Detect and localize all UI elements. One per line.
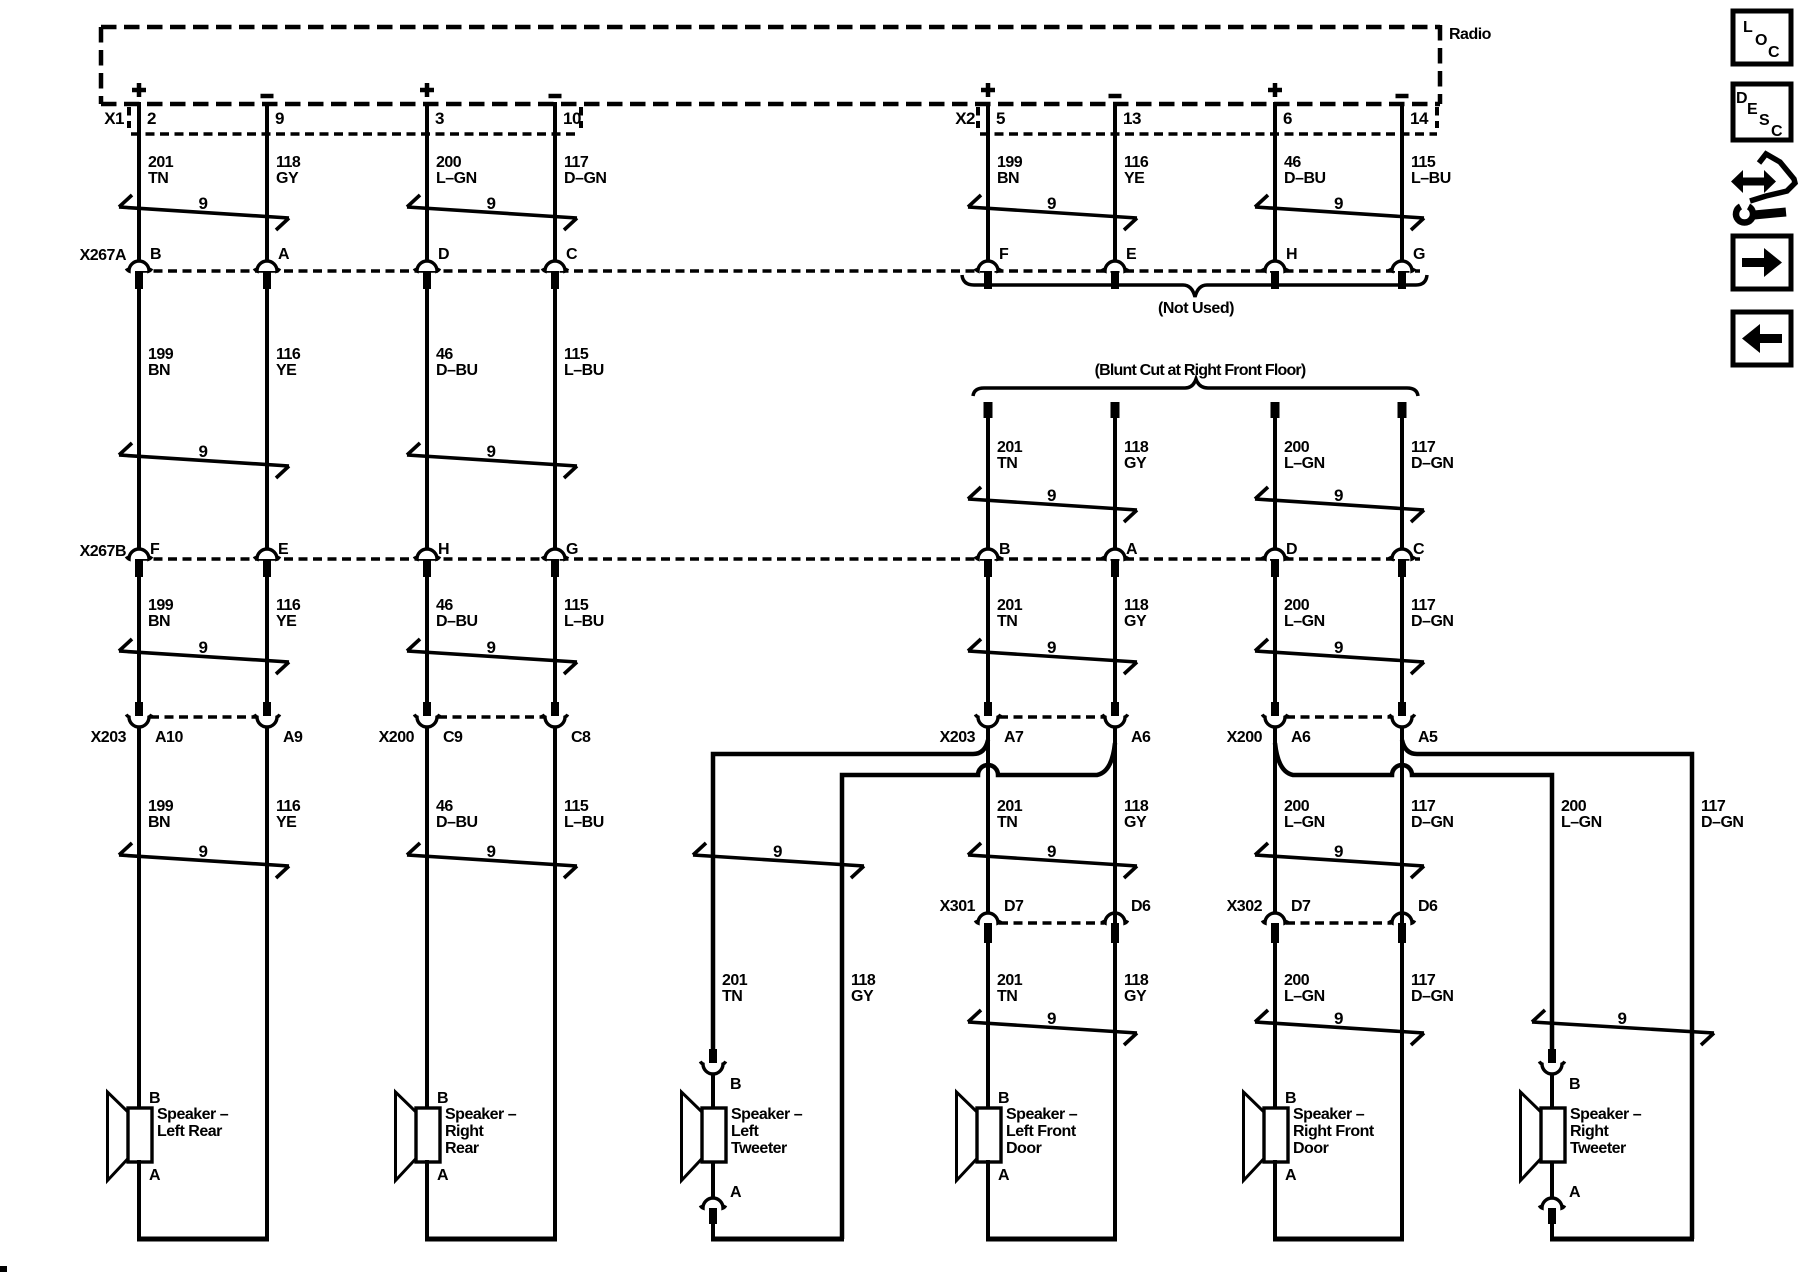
svg-text:GY: GY xyxy=(1124,814,1147,831)
X267A pin D xyxy=(414,246,449,289)
svg-text:118: 118 xyxy=(1124,597,1149,614)
wire label 199 BN xyxy=(997,154,1023,187)
X200 pin A5 xyxy=(1389,702,1438,746)
blunt cut wire end x=1402 xyxy=(1398,402,1407,549)
wire label 118 GY xyxy=(1124,597,1149,630)
wire x=427 X267B to inline connector xyxy=(425,577,429,703)
svg-text:D6: D6 xyxy=(1131,898,1151,915)
connector X1 strip xyxy=(104,107,581,134)
wire label 118 GY xyxy=(851,972,876,1005)
svg-text:118: 118 xyxy=(1124,798,1149,815)
svg-text:115: 115 xyxy=(1411,154,1436,171)
wire x=139 to speaker xyxy=(137,726,141,1110)
svg-text:X1: X1 xyxy=(104,109,124,128)
wire x=988 door connector to speaker xyxy=(986,943,990,1110)
wire label 115 L&#8211;BU xyxy=(564,597,604,630)
svg-text:46: 46 xyxy=(436,597,453,614)
svg-text:200: 200 xyxy=(1284,439,1310,456)
svg-text:117: 117 xyxy=(1411,439,1436,456)
svg-text:115: 115 xyxy=(564,597,589,614)
wire x=267 to speaker xyxy=(265,726,269,1110)
svg-text:Right: Right xyxy=(1570,1123,1610,1140)
connector X302 dashed pair xyxy=(1286,921,1391,924)
svg-text:A: A xyxy=(278,246,290,263)
svg-text:201: 201 xyxy=(997,972,1023,989)
repair icon (arrows and wrench) xyxy=(1731,154,1795,223)
svg-text:(Not Used): (Not Used) xyxy=(1158,300,1234,317)
tweeter lower inline connector x=713 xyxy=(700,1160,725,1239)
svg-text:9: 9 xyxy=(487,194,496,213)
svg-text:TN: TN xyxy=(148,170,168,187)
svg-text:D–GN: D–GN xyxy=(1701,814,1743,831)
X267B pin B xyxy=(975,541,1010,577)
svg-text:Radio: Radio xyxy=(1449,26,1492,43)
plus sign at x=139 xyxy=(132,83,146,97)
connector X267B dashed line xyxy=(139,557,1420,560)
svg-text:X203: X203 xyxy=(91,729,127,746)
svg-text:14: 14 xyxy=(1410,109,1429,128)
wire x=1275 X267B to inline connector xyxy=(1273,577,1277,703)
X267B pin A xyxy=(1102,541,1138,577)
svg-text:B: B xyxy=(149,1090,160,1107)
twisted-pair symbol (1275,1402) y=1022 xyxy=(1255,1009,1424,1045)
svg-text:117: 117 xyxy=(1411,597,1436,614)
svg-text:A: A xyxy=(1126,541,1138,558)
svg-text:D7: D7 xyxy=(1291,898,1311,915)
tweeter upper inline connector x=713 xyxy=(700,1049,725,1110)
svg-text:X200: X200 xyxy=(379,729,415,746)
svg-text:199: 199 xyxy=(148,798,174,815)
back arrow icon box xyxy=(1733,312,1791,365)
DESC icon box xyxy=(1733,84,1791,140)
wire label 46 D&#8211;BU xyxy=(436,346,478,379)
svg-text:Speaker –: Speaker – xyxy=(445,1106,517,1123)
twisted-pair symbol (988,1115) y=1022 xyxy=(968,1009,1137,1045)
svg-text:9: 9 xyxy=(1618,1009,1627,1028)
X267A pin A xyxy=(254,246,290,289)
minus sign at x=1402 xyxy=(1396,94,1409,99)
svg-text:200: 200 xyxy=(1284,798,1310,815)
twisted-pair symbol (988,1115) y=499 xyxy=(968,486,1137,522)
svg-text:A10: A10 xyxy=(155,729,183,746)
X267A pin C xyxy=(542,246,578,289)
wire x=1115 door connector to speaker xyxy=(1113,943,1117,1110)
wire from radio x=1275 xyxy=(1273,102,1277,261)
svg-text:TN: TN xyxy=(997,455,1017,472)
svg-text:C8: C8 xyxy=(571,729,591,746)
svg-text:9: 9 xyxy=(1047,842,1056,861)
svg-text:115: 115 xyxy=(564,346,589,363)
wire x=1275 door connector to speaker xyxy=(1273,943,1277,1110)
svg-text:9: 9 xyxy=(1334,638,1343,657)
svg-text:117: 117 xyxy=(564,154,589,171)
svg-text:D6: D6 xyxy=(1418,898,1438,915)
radio box (dashed) xyxy=(101,25,1440,104)
svg-text:BN: BN xyxy=(148,362,170,379)
svg-text:L–BU: L–BU xyxy=(564,814,604,831)
svg-text:B: B xyxy=(1569,1076,1580,1093)
svg-text:Speaker –: Speaker – xyxy=(1006,1106,1078,1123)
wire label 200 L&#8211;GN xyxy=(1284,597,1325,630)
connector X2 strip xyxy=(955,107,1437,134)
X267A pin E xyxy=(1102,246,1137,289)
wire label 117 D&#8211;GN xyxy=(1411,597,1453,630)
X203 pin A7 xyxy=(975,702,1024,746)
wire x=139 X267A to X267B xyxy=(137,289,141,549)
wire label 199 BN xyxy=(148,798,174,831)
svg-text:116: 116 xyxy=(276,346,301,363)
svg-text:X267A: X267A xyxy=(80,247,127,264)
wire label 117 D&#8211;GN xyxy=(564,154,606,187)
X267A pin H xyxy=(1262,246,1297,289)
svg-text:D–BU: D–BU xyxy=(1284,170,1326,187)
svg-text:L–BU: L–BU xyxy=(564,613,604,630)
svg-text:9: 9 xyxy=(275,109,284,128)
svg-text:D–BU: D–BU xyxy=(436,814,478,831)
svg-text:D–BU: D–BU xyxy=(436,362,478,379)
wire label 117 D&#8211;GN xyxy=(1411,972,1453,1005)
wire label 201 TN xyxy=(997,798,1023,831)
twisted-pair symbol (988,1115) y=207 xyxy=(968,194,1137,230)
blunt cut brace xyxy=(973,379,1418,396)
svg-text:117: 117 xyxy=(1701,798,1726,815)
svg-text:201: 201 xyxy=(722,972,748,989)
speaker return loop 1275-1402 xyxy=(1273,726,1404,1239)
twisted-pair symbol (427,555) y=455 xyxy=(407,442,577,478)
wire from radio x=267 xyxy=(265,102,269,261)
svg-text:A6: A6 xyxy=(1291,729,1311,746)
X302 pin D6 xyxy=(1389,898,1438,943)
svg-text:TN: TN xyxy=(722,988,742,1005)
svg-text:BN: BN xyxy=(997,170,1019,187)
svg-text:9: 9 xyxy=(487,842,496,861)
svg-text:9: 9 xyxy=(487,638,496,657)
svg-text:Tweeter: Tweeter xyxy=(731,1140,787,1157)
twisted-pair symbol (427,555) y=207 xyxy=(407,194,577,230)
svg-text:L–GN: L–GN xyxy=(1561,814,1602,831)
svg-text:201: 201 xyxy=(997,798,1023,815)
svg-text:L–GN: L–GN xyxy=(1284,455,1325,472)
svg-text:116: 116 xyxy=(1124,154,1149,171)
X267A pin G xyxy=(1389,246,1425,289)
wire label 201 TN xyxy=(997,597,1023,630)
svg-text:YE: YE xyxy=(1124,170,1145,187)
twisted-pair symbol (713,842) y=855 xyxy=(693,842,864,878)
svg-text:Right Front: Right Front xyxy=(1293,1123,1375,1140)
svg-text:X203: X203 xyxy=(940,729,976,746)
svg-text:A9: A9 xyxy=(283,729,303,746)
wire label 117 D&#8211;GN xyxy=(1701,798,1743,831)
svg-text:9: 9 xyxy=(199,842,208,861)
svg-text:D–GN: D–GN xyxy=(1411,814,1453,831)
svg-text:D: D xyxy=(1736,90,1747,107)
wire label 46 D&#8211;BU xyxy=(436,798,478,831)
wire x=988 to door connector xyxy=(986,726,990,913)
svg-text:118: 118 xyxy=(276,154,301,171)
connector X200 dashed pair xyxy=(438,715,544,718)
wire label 118 GY xyxy=(1124,798,1149,831)
svg-text:115: 115 xyxy=(564,798,589,815)
svg-text:13: 13 xyxy=(1123,109,1141,128)
svg-text:9: 9 xyxy=(1334,1009,1343,1028)
wire x=139 X267B to inline connector xyxy=(137,577,141,703)
branch wire A6 to right tweeter (with hop over wire) xyxy=(1275,743,1552,1050)
svg-text:E: E xyxy=(1126,246,1137,263)
X200 pin A6 xyxy=(1262,702,1311,746)
svg-text:9: 9 xyxy=(1047,486,1056,505)
wire from radio x=1115 xyxy=(1113,102,1117,261)
X302 pin D7 xyxy=(1262,898,1311,943)
speaker Right Rear xyxy=(396,1090,517,1184)
wire x=1402 to door connector xyxy=(1400,726,1404,913)
X203 pin A9 xyxy=(254,702,303,746)
wire label 116 YE xyxy=(276,346,301,379)
wire x=555 to speaker xyxy=(553,726,557,1110)
svg-text:3: 3 xyxy=(435,109,444,128)
tweeter upper inline connector x=1552 xyxy=(1539,1049,1564,1110)
plus sign at x=1275 xyxy=(1268,83,1282,97)
wire label 118 GY xyxy=(276,154,301,187)
X267B pin E xyxy=(254,541,289,577)
X267A pin B xyxy=(126,246,161,289)
X267B pin H xyxy=(414,541,449,577)
speaker return loop 1552-1692 xyxy=(1550,1237,1694,1242)
svg-text:L–GN: L–GN xyxy=(436,170,477,187)
svg-text:200: 200 xyxy=(1561,798,1587,815)
twisted-pair symbol (139,267) y=651 xyxy=(119,638,289,674)
speaker return loop 713-842 xyxy=(711,1237,844,1242)
wire from radio x=555 xyxy=(553,102,557,261)
svg-text:46: 46 xyxy=(436,346,453,363)
wire x=1402 X267B to inline connector xyxy=(1400,577,1404,703)
speaker return loop 427-555 xyxy=(425,726,557,1239)
svg-text:201: 201 xyxy=(148,154,174,171)
svg-text:Door: Door xyxy=(1293,1140,1329,1157)
wire x=427 to speaker xyxy=(425,726,429,1110)
X301 pin D6 xyxy=(1102,898,1151,943)
svg-text:116: 116 xyxy=(276,798,301,815)
(Not Used) brace xyxy=(962,275,1427,297)
svg-text:C: C xyxy=(1771,123,1783,140)
wire label 116 YE xyxy=(276,597,301,630)
X200 pin C8 xyxy=(542,702,591,746)
svg-text:Tweeter: Tweeter xyxy=(1570,1140,1626,1157)
twisted-pair symbol (139,267) y=455 xyxy=(119,442,289,478)
svg-text:D: D xyxy=(1286,541,1297,558)
twisted-pair symbol (1275,1402) y=207 xyxy=(1255,194,1424,230)
svg-text:116: 116 xyxy=(276,597,301,614)
svg-text:A: A xyxy=(730,1184,742,1201)
svg-text:D–GN: D–GN xyxy=(1411,988,1453,1005)
minus sign at x=1115 xyxy=(1109,94,1122,99)
twisted-pair symbol (988,1115) y=651 xyxy=(968,638,1137,674)
svg-text:O: O xyxy=(1755,32,1767,49)
wire label 200 L&#8211;GN xyxy=(1284,972,1325,1005)
X200 pin C9 xyxy=(414,702,463,746)
connector X203 dashed pair xyxy=(999,715,1104,718)
svg-text:9: 9 xyxy=(1334,194,1343,213)
wire label 199 BN xyxy=(148,597,174,630)
svg-text:C: C xyxy=(566,246,578,263)
svg-text:6: 6 xyxy=(1283,109,1292,128)
branch wire A6 to left tweeter (with hop over wire) xyxy=(842,743,1115,1239)
svg-text:9: 9 xyxy=(1047,638,1056,657)
svg-text:Door: Door xyxy=(1006,1140,1042,1157)
svg-text:2: 2 xyxy=(147,109,156,128)
svg-text:L–GN: L–GN xyxy=(1284,988,1325,1005)
svg-text:A5: A5 xyxy=(1418,729,1438,746)
svg-text:5: 5 xyxy=(996,109,1005,128)
wire label 201 TN xyxy=(997,439,1023,472)
svg-text:L–BU: L–BU xyxy=(1411,170,1451,187)
plus sign at x=427 xyxy=(420,83,434,97)
svg-text:Speaker –: Speaker – xyxy=(1293,1106,1365,1123)
twisted-pair symbol (427,555) y=651 xyxy=(407,638,577,674)
svg-text:L–GN: L–GN xyxy=(1284,613,1325,630)
X267B pin F xyxy=(126,541,160,577)
svg-text:9: 9 xyxy=(199,638,208,657)
page corner mark xyxy=(0,1266,7,1272)
wire x=1402 door connector to speaker xyxy=(1400,943,1404,1110)
svg-text:GY: GY xyxy=(1124,455,1147,472)
blunt cut wire end x=1115 xyxy=(1111,402,1120,549)
wire x=1115 to door connector xyxy=(1113,726,1117,913)
svg-text:118: 118 xyxy=(851,972,876,989)
wire x=555 X267A to X267B xyxy=(553,289,557,549)
svg-text:H: H xyxy=(1286,246,1297,263)
svg-text:GY: GY xyxy=(1124,613,1147,630)
wire x=427 X267A to X267B xyxy=(425,289,429,549)
connector X301 dashed pair xyxy=(999,921,1104,924)
branch wire A5 to right tweeter xyxy=(1402,740,1692,1239)
svg-text:118: 118 xyxy=(1124,439,1149,456)
wire x=1275 to door connector xyxy=(1273,726,1277,913)
svg-text:C: C xyxy=(1413,541,1425,558)
svg-text:L: L xyxy=(1743,19,1753,36)
X267A pin F xyxy=(975,246,1009,289)
svg-text:A: A xyxy=(149,1167,161,1184)
svg-text:F: F xyxy=(999,246,1009,263)
svg-text:TN: TN xyxy=(997,988,1017,1005)
wire x=988 X267B to inline connector xyxy=(986,577,990,703)
twisted-pair symbol (988,1115) y=855 xyxy=(968,842,1137,878)
twisted-pair symbol (1275,1402) y=651 xyxy=(1255,638,1424,674)
svg-text:D7: D7 xyxy=(1004,898,1024,915)
svg-text:117: 117 xyxy=(1411,798,1436,815)
wire label 115 L&#8211;BU xyxy=(564,798,604,831)
svg-text:Speaker –: Speaker – xyxy=(731,1106,803,1123)
speaker Left Tweeter xyxy=(682,1076,803,1201)
svg-text:E: E xyxy=(1747,101,1758,118)
tweeter lower inline connector x=1552 xyxy=(1539,1160,1564,1239)
svg-text:C9: C9 xyxy=(443,729,463,746)
svg-text:D–BU: D–BU xyxy=(436,613,478,630)
speaker Right Front Door xyxy=(1244,1090,1375,1184)
wire from radio x=139 xyxy=(137,102,141,261)
svg-text:118: 118 xyxy=(1124,972,1149,989)
svg-text:G: G xyxy=(566,541,578,558)
svg-text:Left Front: Left Front xyxy=(1006,1123,1077,1140)
svg-text:200: 200 xyxy=(1284,597,1310,614)
X267B pin D xyxy=(1262,541,1297,577)
svg-text:L–GN: L–GN xyxy=(1284,814,1325,831)
svg-text:A: A xyxy=(437,1167,449,1184)
svg-text:B: B xyxy=(999,541,1010,558)
svg-text:TN: TN xyxy=(997,613,1017,630)
wire label 200 L&#8211;GN xyxy=(1284,439,1325,472)
svg-text:GY: GY xyxy=(276,170,299,187)
svg-text:B: B xyxy=(730,1076,741,1093)
svg-text:GY: GY xyxy=(851,988,874,1005)
X267B pin G xyxy=(542,541,578,577)
wire from radio x=988 xyxy=(986,102,990,261)
svg-text:X301: X301 xyxy=(940,898,976,915)
svg-text:B: B xyxy=(437,1090,448,1107)
wire label 46 D&#8211;BU xyxy=(1284,154,1326,187)
minus sign at x=267 xyxy=(261,94,274,99)
svg-text:9: 9 xyxy=(1334,486,1343,505)
wire label 200 L&#8211;GN xyxy=(1284,798,1325,831)
X1/X2 pin numbers xyxy=(147,109,1429,128)
X203 pin A10 xyxy=(126,702,183,746)
svg-text:A: A xyxy=(998,1167,1010,1184)
svg-text:X2: X2 xyxy=(955,109,975,128)
svg-text:199: 199 xyxy=(997,154,1023,171)
svg-text:BN: BN xyxy=(148,613,170,630)
svg-text:D–GN: D–GN xyxy=(564,170,606,187)
wire label 201 TN xyxy=(722,972,748,1005)
speaker return loop 139-267 xyxy=(137,726,269,1239)
blunt cut wire end x=988 xyxy=(984,402,993,549)
svg-text:Rear: Rear xyxy=(445,1140,479,1157)
svg-text:A: A xyxy=(1569,1184,1581,1201)
blunt cut wire end x=1275 xyxy=(1271,402,1280,549)
svg-text:GY: GY xyxy=(1124,988,1147,1005)
svg-text:L–BU: L–BU xyxy=(564,362,604,379)
connector X200 dashed pair xyxy=(1286,715,1391,718)
twisted-pair symbol (427,555) y=855 xyxy=(407,842,577,878)
svg-text:X302: X302 xyxy=(1227,898,1263,915)
svg-text:F: F xyxy=(150,541,160,558)
wire label 115 L&#8211;BU xyxy=(1411,154,1451,187)
svg-text:G: G xyxy=(1413,246,1425,263)
svg-text:9: 9 xyxy=(1047,1009,1056,1028)
twisted-pair symbol (1275,1402) y=499 xyxy=(1255,486,1424,522)
wire from radio x=427 xyxy=(425,102,429,261)
svg-text:Speaker –: Speaker – xyxy=(1570,1106,1642,1123)
plus sign at x=988 xyxy=(981,83,995,97)
svg-text:YE: YE xyxy=(276,362,297,379)
svg-text:S: S xyxy=(1759,112,1770,129)
X267B pin C xyxy=(1389,541,1425,577)
svg-text:BN: BN xyxy=(148,814,170,831)
wire label 118 GY xyxy=(1124,439,1149,472)
svg-text:(Blunt Cut at Right Front Floo: (Blunt Cut at Right Front Floor) xyxy=(1095,362,1306,379)
svg-text:199: 199 xyxy=(148,597,174,614)
connector X267A dashed line xyxy=(139,269,1420,272)
svg-text:46: 46 xyxy=(436,798,453,815)
svg-text:B: B xyxy=(150,246,161,263)
svg-text:Speaker –: Speaker – xyxy=(157,1106,229,1123)
svg-text:9: 9 xyxy=(1334,842,1343,861)
svg-text:10: 10 xyxy=(563,109,581,128)
svg-text:H: H xyxy=(438,541,449,558)
X203 pin A6 xyxy=(1102,702,1151,746)
wire label 201 TN xyxy=(148,154,174,187)
svg-text:201: 201 xyxy=(997,439,1023,456)
wire label 46 D&#8211;BU xyxy=(436,597,478,630)
wire from radio x=1402 xyxy=(1400,102,1404,261)
